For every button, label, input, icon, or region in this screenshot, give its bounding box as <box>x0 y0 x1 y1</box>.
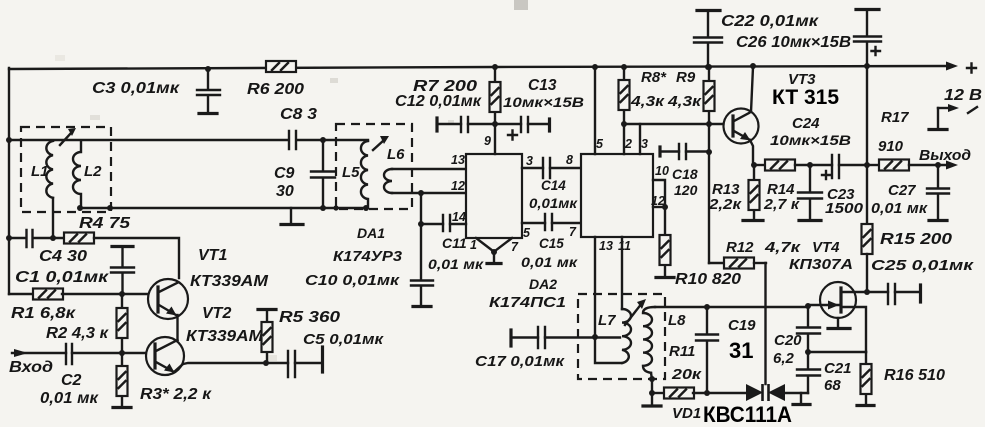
DA1 pins 1 7 to ground <box>476 238 512 251</box>
node divider tap <box>805 349 811 355</box>
capacitor C9 <box>274 140 335 208</box>
capacitor C17 <box>475 327 620 370</box>
svg-text:2,2к: 2,2к <box>708 196 743 213</box>
ground bar under R10 <box>656 276 674 279</box>
wire R17 to output arrow <box>909 164 948 166</box>
wire DA2 pin13 down <box>595 237 622 363</box>
capacitor C10 <box>305 224 433 305</box>
svg-text:R5 360: R5 360 <box>279 309 340 326</box>
svg-text:9: 9 <box>484 134 491 148</box>
svg-text:L2: L2 <box>84 163 102 180</box>
input arrow Вход <box>9 349 66 376</box>
node gate <box>805 303 811 309</box>
svg-text:R8*: R8* <box>641 69 667 86</box>
svg-text:1: 1 <box>470 238 477 252</box>
svg-text:С12 0,01мк: С12 0,01мк <box>395 93 482 110</box>
svg-text:20к: 20к <box>671 366 703 383</box>
node C18 <box>706 149 712 155</box>
capacitor C4 <box>27 230 88 265</box>
node R8 y124 <box>621 121 627 127</box>
capacitor C24 <box>770 115 867 179</box>
wire pin9 <box>494 124 496 154</box>
node C23 top <box>807 162 813 168</box>
svg-text:13: 13 <box>451 153 465 167</box>
node C19 bottom <box>704 390 710 396</box>
capacitor C19 <box>696 307 756 393</box>
svg-text:VT4: VT4 <box>812 239 840 256</box>
varicap diode VD1 <box>672 384 792 427</box>
capacitor C23 <box>798 165 864 219</box>
ground under R16 <box>857 404 874 407</box>
svg-text:L7: L7 <box>598 312 616 329</box>
svg-text:R4 75: R4 75 <box>79 215 131 232</box>
svg-text:R3* 2,2 к: R3* 2,2 к <box>140 386 212 403</box>
wire L8 bottom down <box>651 373 652 393</box>
inductor L6 <box>384 146 405 193</box>
wire tank bottom y208 <box>80 207 366 209</box>
capacitor C22 <box>694 11 819 68</box>
output arrowhead Выход <box>946 161 958 170</box>
svg-text:31: 31 <box>729 338 753 363</box>
svg-text:DA1: DA1 <box>357 225 385 241</box>
svg-text:8: 8 <box>566 153 573 167</box>
svg-text:С18: С18 <box>672 166 698 182</box>
svg-text:7: 7 <box>511 240 519 254</box>
svg-text:С26 10мк×15В: С26 10мк×15В <box>736 34 851 51</box>
wire varicap to C21 <box>785 392 808 394</box>
capacitor C14 <box>522 158 581 211</box>
capacitor C15 <box>521 214 581 270</box>
ground under C23 <box>799 219 821 222</box>
ground under C10 <box>413 305 431 308</box>
wire R1 to VT1 base <box>62 293 149 295</box>
tuning arrow L1 L2 <box>60 132 72 145</box>
dashed box L7 L8 <box>578 294 665 379</box>
resistor R15 <box>862 224 953 292</box>
svg-text:R1 6,8к: R1 6,8к <box>11 305 76 322</box>
wire DA2 pin10 <box>653 180 665 207</box>
svg-text:Вход: Вход <box>9 359 53 376</box>
wire top supply rail <box>9 66 948 69</box>
wire pin3 DA2 <box>639 124 641 154</box>
capacitor C13 <box>495 77 584 140</box>
resistor R12 <box>709 239 802 269</box>
svg-text:С25 0,01мк: С25 0,01мк <box>871 257 975 274</box>
svg-text:R9: R9 <box>676 69 696 86</box>
svg-text:КТ 315: КТ 315 <box>772 86 839 109</box>
node L8 bottom <box>649 376 655 382</box>
ground under R13 <box>743 219 763 222</box>
ground under L8 node <box>651 393 653 404</box>
wire C8 to L5 <box>298 139 368 141</box>
svg-text:0,01 мк: 0,01 мк <box>521 255 578 270</box>
node varicap row left <box>649 390 655 396</box>
IC DA1 <box>333 154 522 265</box>
svg-text:КТ339АМ: КТ339АМ <box>190 273 269 290</box>
svg-text:L5: L5 <box>342 164 360 181</box>
transistor VT3 <box>724 67 840 165</box>
svg-text:3: 3 <box>641 137 648 151</box>
svg-text:13: 13 <box>599 239 613 253</box>
svg-text:10: 10 <box>655 164 669 178</box>
svg-text:С10 0,01мк: С10 0,01мк <box>305 273 400 289</box>
capacitor C2 <box>40 344 147 407</box>
svg-text:С21: С21 <box>824 360 852 377</box>
svg-text:DA2: DA2 <box>529 276 557 292</box>
node VT2 base divider <box>119 350 125 356</box>
resistor R16 <box>861 352 946 404</box>
svg-text:910: 910 <box>878 138 904 155</box>
wire L6 bottom to DA1 pin12 <box>392 192 466 194</box>
ground under DA1 <box>487 262 501 265</box>
svg-text:5: 5 <box>596 137 604 151</box>
svg-text:0,01 мк: 0,01 мк <box>871 200 929 217</box>
dashed screen box L1 L2 <box>21 127 111 212</box>
svg-text:С14: С14 <box>541 178 566 193</box>
svg-text:R16 510: R16 510 <box>884 367 945 384</box>
svg-text:Выход: Выход <box>919 148 971 164</box>
svg-text:L1: L1 <box>31 163 49 180</box>
dashed screen box L5 L6 <box>336 124 412 209</box>
svg-text:КВС111А: КВС111А <box>703 402 792 427</box>
tuning arrow L7 L8 <box>625 303 642 325</box>
svg-text:10мк×15В: 10мк×15В <box>770 132 851 148</box>
svg-text:С13: С13 <box>528 77 557 94</box>
ground under C3 <box>199 112 217 115</box>
node pin12 branch <box>418 190 424 196</box>
svg-text:2,7 к: 2,7 к <box>763 196 801 213</box>
node VT4 drain <box>864 289 870 295</box>
tuning arrow L5 L6 <box>373 140 384 150</box>
node rail VT3 <box>750 63 756 69</box>
node R5 bottom <box>263 360 269 366</box>
resistor R9 <box>667 67 715 124</box>
node box edge y208 <box>107 205 113 211</box>
svg-text:С20: С20 <box>774 332 802 349</box>
node L2 bottom <box>77 205 83 211</box>
node R7 pin9 <box>492 121 498 127</box>
capacitor C12 <box>395 93 495 132</box>
capacitor C1 <box>15 247 134 295</box>
svg-text:VT1: VT1 <box>198 247 227 264</box>
node C17 pin13 <box>592 334 598 340</box>
svg-text:L8: L8 <box>668 312 686 329</box>
wire tap to source <box>808 351 866 353</box>
resistor R11 <box>652 343 707 399</box>
node C11 C10 <box>418 221 424 227</box>
resistor R14 <box>763 160 801 214</box>
svg-text:0,01мк: 0,01мк <box>529 196 578 211</box>
svg-text:С5 0,01мк: С5 0,01мк <box>303 331 385 348</box>
wire R9 branch down to R12 <box>708 124 710 263</box>
capacitor C26 <box>736 10 881 67</box>
inductor L2 <box>73 141 102 208</box>
wire R14 to C24 <box>795 164 832 166</box>
capacitor C27 <box>871 165 949 219</box>
svg-text:R15 200: R15 200 <box>880 231 952 248</box>
wire R4 to VT1 collector <box>94 238 179 278</box>
svg-text:С3 0,01мк: С3 0,01мк <box>92 80 180 97</box>
wire left vertical bus <box>8 68 10 294</box>
node left bus y238 <box>6 235 12 241</box>
svg-text:VT2: VT2 <box>202 305 231 322</box>
svg-text:7: 7 <box>569 225 577 239</box>
supply rail arrowhead 12V <box>946 62 958 71</box>
svg-text:4,3к: 4,3к <box>630 93 666 110</box>
node box edge x336 <box>333 205 338 210</box>
svg-text:С2: С2 <box>61 372 82 389</box>
resistor R7 <box>413 67 501 124</box>
svg-text:0,01 мк: 0,01 мк <box>428 256 484 272</box>
resistor R10 <box>660 207 742 288</box>
svg-text:R6 200: R6 200 <box>247 81 304 98</box>
ground under C27 <box>929 219 947 222</box>
transistor VT4 <box>789 239 867 352</box>
svg-text:К174УР3: К174УР3 <box>333 248 403 265</box>
node VT3 emitter <box>751 162 757 168</box>
wire DA2 pin11 down <box>621 237 623 309</box>
node L1 stem C4 <box>50 235 56 241</box>
wire pin12 branch down <box>420 193 422 224</box>
wire output row to R17 <box>867 164 879 166</box>
wire L8 to gate node <box>655 306 808 308</box>
12V lower connector bracket <box>929 104 977 130</box>
wire varicap center to R12 <box>764 263 766 384</box>
wire input tank top <box>9 139 288 141</box>
node rail R7 <box>492 64 498 70</box>
node left bus y140 <box>6 137 12 143</box>
svg-text:С8 3: С8 3 <box>280 106 317 123</box>
svg-text:R11: R11 <box>669 343 695 360</box>
transistor VT2 <box>146 305 264 375</box>
svg-text:R17: R17 <box>881 109 909 126</box>
scan smudge top center <box>514 0 528 10</box>
svg-text:68: 68 <box>824 377 841 394</box>
svg-text:12 В: 12 В <box>944 87 982 104</box>
wire L6 top to DA1 pin13 <box>392 168 466 170</box>
node rail C3 <box>205 66 211 72</box>
node output x867 <box>864 162 870 168</box>
inductor L8 <box>643 307 686 373</box>
ground under VT4 <box>828 327 850 330</box>
inductor L7 <box>598 309 631 363</box>
wire DA2 pin5 to rail <box>594 67 596 154</box>
node C9 top <box>320 137 326 143</box>
svg-text:С24: С24 <box>792 115 820 132</box>
svg-text:С22 0,01мк: С22 0,01мк <box>721 13 819 30</box>
svg-text:3: 3 <box>526 154 533 168</box>
resistor R3 <box>117 353 212 406</box>
svg-text:КП307А: КП307А <box>789 256 853 273</box>
svg-text:С4 30: С4 30 <box>39 248 87 265</box>
svg-text:4,7к: 4,7к <box>764 239 802 256</box>
capacitor C11 <box>421 215 484 272</box>
node C27 <box>935 162 941 168</box>
node C9 bottom <box>320 205 326 211</box>
resistor R8 <box>619 67 668 154</box>
capacitor C3 <box>92 69 220 112</box>
svg-text:К174ПС1: К174ПС1 <box>489 294 566 311</box>
wire to varicap <box>707 392 746 394</box>
svg-text:R2 4,3 к: R2 4,3 к <box>46 325 109 342</box>
svg-text:0,01 мк: 0,01 мк <box>40 390 99 407</box>
ground under varicap node <box>800 393 802 403</box>
node base divider <box>119 291 125 297</box>
svg-text:L6: L6 <box>387 146 405 163</box>
svg-text:С15: С15 <box>539 236 564 251</box>
wire supply branch x867 <box>866 66 868 226</box>
svg-text:10мк×15В: 10мк×15В <box>503 94 584 110</box>
svg-text:6,2: 6,2 <box>773 350 795 367</box>
transistor VT1 <box>148 247 269 340</box>
svg-text:5: 5 <box>523 226 531 240</box>
capacitor C8 <box>280 106 317 149</box>
svg-text:1500: 1500 <box>825 200 864 217</box>
wire emitter output row <box>754 164 767 166</box>
svg-text:4,3к: 4,3к <box>667 93 703 110</box>
IC DA2 <box>489 154 653 311</box>
svg-text:КТ339АМ: КТ339АМ <box>186 328 264 345</box>
ground stub on y208 wire <box>290 208 292 223</box>
wire VT2 emitter row <box>183 363 288 364</box>
resistor R5 <box>258 309 340 363</box>
svg-text:11: 11 <box>618 239 631 253</box>
node rail C26 <box>864 63 870 69</box>
svg-text:12: 12 <box>451 179 465 193</box>
wire R1 row <box>9 293 34 295</box>
wire C4 R4 row <box>9 237 26 239</box>
plus mark near 12V arrow <box>967 64 976 73</box>
svg-text:С19: С19 <box>728 317 756 334</box>
resistor R4 <box>64 215 131 244</box>
svg-text:30: 30 <box>276 183 294 200</box>
inductor L1 <box>31 141 53 198</box>
svg-text:С17 0,01мк: С17 0,01мк <box>475 353 566 370</box>
svg-text:С27: С27 <box>888 182 916 199</box>
svg-text:С11: С11 <box>442 235 467 251</box>
ground under R3 <box>113 406 131 409</box>
capacitor C18 <box>660 144 709 198</box>
resistor R17 <box>878 109 909 171</box>
inductor L5 <box>342 141 368 208</box>
capacitor C21 <box>797 360 852 394</box>
svg-text:R12: R12 <box>726 239 754 256</box>
svg-text:R10 820: R10 820 <box>675 271 741 288</box>
node L5 bottom <box>363 205 369 211</box>
resistor R6 <box>247 61 304 98</box>
node rail C22 <box>705 64 711 70</box>
node C19 top <box>704 304 710 310</box>
resistor R13 <box>708 165 760 219</box>
wire L1 bottom stem <box>52 198 54 238</box>
resistor R2 <box>46 294 128 353</box>
wire y124 pin3 to VT3 base <box>624 123 732 125</box>
svg-text:120: 120 <box>674 182 698 198</box>
svg-text:14: 14 <box>452 210 466 224</box>
capacitor C25 <box>867 257 975 304</box>
capacitor C20 <box>773 306 820 369</box>
wire DA2 pin12 <box>653 206 665 208</box>
svg-text:С1 0,01мк: С1 0,01мк <box>15 269 109 286</box>
svg-text:С9: С9 <box>274 165 295 182</box>
resistor R1 <box>11 289 76 323</box>
capacitor C5 <box>288 331 385 377</box>
svg-text:VD1: VD1 <box>672 405 701 422</box>
